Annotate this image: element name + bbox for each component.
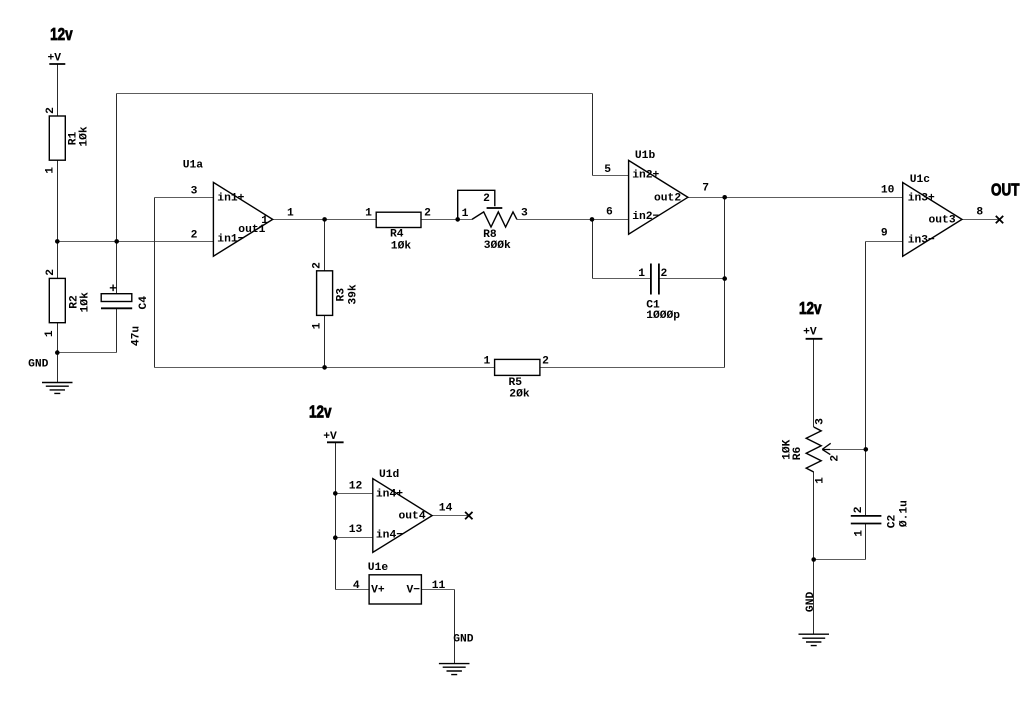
capacitor C4 top plate <box>101 294 132 302</box>
wire U1b out to U1c pin10 <box>688 197 903 199</box>
wire U1c pin9 vertical to C2 <box>865 242 867 516</box>
svg-text:11: 11 <box>432 580 446 592</box>
power symbol +V mid bar <box>327 441 344 443</box>
svg-text:+V: +V <box>323 431 337 443</box>
op-amp U1b <box>629 160 688 234</box>
wire 12v mid vertical <box>335 442 337 589</box>
junction node R8 pin1 <box>455 217 460 222</box>
svg-text:12v: 12v <box>50 26 73 45</box>
svg-text:2: 2 <box>191 229 198 241</box>
resistor R3 body <box>317 271 333 316</box>
wire C1 left vertical <box>592 220 594 279</box>
wire C2 bottom horizontal <box>814 559 866 561</box>
wire node to U1a pin2 <box>58 241 214 243</box>
svg-text:1Øk: 1Øk <box>79 292 91 313</box>
wire C4 bottom <box>116 308 118 352</box>
svg-text:4: 4 <box>353 580 360 592</box>
svg-text:in2−: in2− <box>632 211 659 223</box>
svg-text:1: 1 <box>854 530 866 537</box>
svg-text:13: 13 <box>349 524 363 536</box>
svg-text:GND: GND <box>805 592 817 613</box>
capacitor C1 left plate <box>650 264 652 295</box>
svg-text:3ØØk: 3ØØk <box>484 240 511 252</box>
svg-text:GND: GND <box>28 359 49 371</box>
svg-text:out3: out3 <box>929 215 956 227</box>
svg-text:2: 2 <box>312 262 324 269</box>
svg-text:R1: R1 <box>67 132 79 146</box>
svg-text:1: 1 <box>815 477 827 484</box>
svg-text:Ø.1u: Ø.1u <box>898 500 910 527</box>
capacitor C2 bottom plate <box>851 523 882 525</box>
wire top feedback horizontal <box>117 93 593 95</box>
potentiometer R8 wiper loop <box>458 190 495 219</box>
ground mid <box>439 664 470 675</box>
svg-text:12v: 12v <box>799 300 822 319</box>
wire R1 to R2 through node <box>57 160 59 278</box>
svg-text:1: 1 <box>484 356 491 368</box>
svg-text:+V: +V <box>48 52 62 64</box>
wire R2 to ground <box>57 323 59 383</box>
svg-text:1: 1 <box>365 207 372 219</box>
junction node U1d pin13 <box>333 535 338 540</box>
svg-text:in2+: in2+ <box>632 170 659 182</box>
junction node R2-gnd <box>55 350 60 355</box>
svg-text:6: 6 <box>606 207 613 219</box>
svg-text:9: 9 <box>881 227 888 239</box>
wire bottom feedback right <box>540 367 725 369</box>
junction node C1 left <box>590 217 595 222</box>
wire R6 wiper horizontal <box>830 449 866 451</box>
svg-text:2: 2 <box>853 506 865 513</box>
junction node U1b out <box>722 195 727 200</box>
wire U1a pin3 vertical loop <box>154 198 156 368</box>
power symbol +V left bar <box>49 63 65 65</box>
svg-text:in3+: in3+ <box>908 193 935 205</box>
op-amp U1d <box>373 479 432 553</box>
svg-text:14: 14 <box>439 503 453 515</box>
svg-text:2: 2 <box>483 193 490 205</box>
wire 12v rail to R1 <box>57 64 59 116</box>
wire bottom feedback left <box>155 367 495 369</box>
wire U1a pin3 horizontal <box>155 197 214 199</box>
junction node R1-R2 divider <box>55 239 60 244</box>
svg-text:2: 2 <box>830 455 842 462</box>
wire R3 top <box>324 220 326 271</box>
wire U1e pin4 <box>336 589 370 591</box>
junction node R6 wiper <box>864 447 869 452</box>
resistor R5 body <box>495 359 540 375</box>
svg-text:39k: 39k <box>348 284 360 305</box>
op-amp U1a <box>213 182 272 256</box>
svg-text:U1e: U1e <box>368 562 389 574</box>
resistor R4 body <box>376 212 421 227</box>
potentiometer R6 zigzag <box>806 427 821 472</box>
no-connect X at U1c out <box>996 216 1003 223</box>
svg-text:U1c: U1c <box>910 174 931 186</box>
svg-text:3: 3 <box>191 186 198 198</box>
svg-text:2: 2 <box>542 356 549 368</box>
wire C4 top <box>116 242 118 294</box>
capacitor C2 top plate <box>851 515 882 517</box>
svg-text:U1a: U1a <box>183 160 204 172</box>
svg-text:1: 1 <box>462 208 469 220</box>
wire R8 to U1b pin6 <box>517 219 629 221</box>
svg-text:2: 2 <box>424 208 431 220</box>
svg-text:U1d: U1d <box>379 469 399 481</box>
wire R4 to R8 <box>421 219 472 221</box>
svg-text:out2: out2 <box>654 193 681 205</box>
ground left <box>42 383 73 394</box>
resistor R2 body <box>49 278 65 322</box>
svg-text:2: 2 <box>45 269 57 276</box>
capacitor C4 plus sign <box>110 285 117 292</box>
wire C1 left horizontal <box>593 278 651 280</box>
wire C2 bottom vertical <box>865 524 867 560</box>
svg-text:5: 5 <box>604 164 611 176</box>
wire C1 right horizontal <box>659 278 725 280</box>
potentiometer R8 zigzag <box>472 212 517 227</box>
svg-text:R5: R5 <box>509 377 523 389</box>
svg-text:in1+: in1+ <box>217 193 244 205</box>
svg-text:3: 3 <box>815 418 827 425</box>
wire U1e pin11 <box>421 589 454 591</box>
wire U1b pin5 horizontal <box>593 175 629 177</box>
wire top feedback left vertical <box>116 94 118 242</box>
svg-text:47u: 47u <box>130 326 142 346</box>
svg-text:C2: C2 <box>887 515 899 529</box>
svg-text:12: 12 <box>349 481 363 493</box>
svg-text:+V: +V <box>803 327 817 339</box>
wire U1d pin13 <box>336 537 373 539</box>
svg-text:7: 7 <box>702 182 709 194</box>
svg-text:10: 10 <box>881 185 895 197</box>
op-amp U1c <box>903 183 962 257</box>
svg-text:V−: V− <box>407 585 421 597</box>
svg-text:in4−: in4− <box>376 530 403 542</box>
svg-text:1: 1 <box>638 268 645 280</box>
svg-text:OUT: OUT <box>991 181 1020 200</box>
svg-text:8: 8 <box>976 207 983 219</box>
wire U1d pin12 <box>336 493 373 495</box>
svg-text:R6: R6 <box>792 447 804 461</box>
wire U1c pin9 horizontal <box>866 241 903 243</box>
svg-text:V+: V+ <box>371 585 385 597</box>
svg-text:1: 1 <box>261 215 268 227</box>
junction node U1a out-R3 <box>322 217 327 222</box>
svg-text:1: 1 <box>287 208 294 220</box>
junction node C1 right <box>722 276 727 281</box>
svg-text:2: 2 <box>661 268 668 280</box>
svg-text:1: 1 <box>44 167 56 174</box>
capacitor C4 bottom plate <box>101 307 132 309</box>
svg-text:2Øk: 2Øk <box>509 389 530 401</box>
wire C4 to gnd node <box>58 352 117 354</box>
junction node R3-feedback <box>322 365 327 370</box>
wire U1e pin11 to ground <box>454 590 456 664</box>
capacitor C1 right plate <box>658 264 660 295</box>
wire R3 bottom <box>324 315 326 367</box>
potentiometer R8 wiper bar <box>487 207 503 209</box>
wire 12v right to R6 <box>813 339 815 427</box>
junction node R6-C2 gnd <box>811 557 816 562</box>
svg-text:1Øk: 1Øk <box>79 126 91 147</box>
svg-text:in3−: in3− <box>908 234 935 246</box>
wire U1c out <box>962 219 1000 221</box>
wire U1b out vertical <box>724 198 726 368</box>
junction node U1d pin12 <box>333 491 338 496</box>
svg-text:R3: R3 <box>336 288 348 302</box>
svg-text:GND: GND <box>453 633 474 645</box>
power symbol +V right bar <box>806 338 823 340</box>
wire U1d out <box>432 515 469 517</box>
svg-text:U1b: U1b <box>635 150 656 162</box>
svg-text:1: 1 <box>312 322 324 329</box>
svg-text:R4: R4 <box>390 229 404 241</box>
power block U1e body <box>369 575 421 604</box>
ground right <box>799 634 830 645</box>
svg-text:1ØØØp: 1ØØØp <box>646 310 680 322</box>
svg-text:in4+: in4+ <box>376 488 403 500</box>
resistor R1 body <box>49 116 65 160</box>
svg-text:out4: out4 <box>399 510 426 522</box>
potentiometer R6 wiper arrow <box>822 443 831 454</box>
svg-text:3: 3 <box>521 208 528 220</box>
svg-text:12v: 12v <box>309 403 332 422</box>
svg-text:C4: C4 <box>138 296 150 310</box>
junction node feedback-C4 <box>114 239 119 244</box>
wire top feedback right vertical to U1b pin5 <box>592 94 594 176</box>
wire R6 to ground <box>813 472 815 634</box>
svg-text:1Øk: 1Øk <box>391 241 412 253</box>
wire U1a out to R4 <box>273 219 377 221</box>
svg-text:2: 2 <box>45 107 57 114</box>
svg-text:1: 1 <box>44 330 56 337</box>
no-connect X at U1d out <box>465 512 472 519</box>
